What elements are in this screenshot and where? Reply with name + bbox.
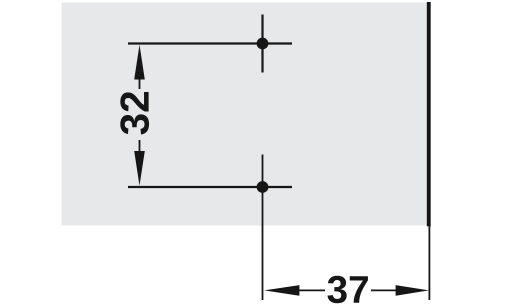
dimension label 37: [327, 276, 367, 303]
dimension 32 arrow down: [134, 151, 145, 186]
dimension label 32 (rotated, reads bottom-to-top): [120, 92, 149, 135]
centerline top hole vertical: [261, 15, 263, 73]
cabinet side panel (light gray): [62, 3, 427, 226]
centerline top hole horizontal: [128, 42, 292, 44]
dimension 32 line upper segment: [139, 78, 141, 89]
dimension 37 line left segment: [299, 289, 326, 291]
extension line right for 37 (below panel edge): [428, 226, 430, 300]
drill point top: [257, 38, 269, 50]
drill point bottom: [257, 181, 269, 193]
centerline bottom hole horizontal: [128, 186, 292, 188]
dimension 37 line right segment: [371, 289, 397, 291]
dimension 32 line lower segment: [139, 140, 141, 152]
dimension 32 arrow up: [134, 45, 145, 80]
dimension 37 arrow right: [396, 285, 429, 296]
centerline bottom hole vertical / extension line for 37: [262, 155, 264, 301]
dimension 37 arrow left: [264, 285, 299, 296]
panel front edge (thick black line): [427, 2, 431, 226]
